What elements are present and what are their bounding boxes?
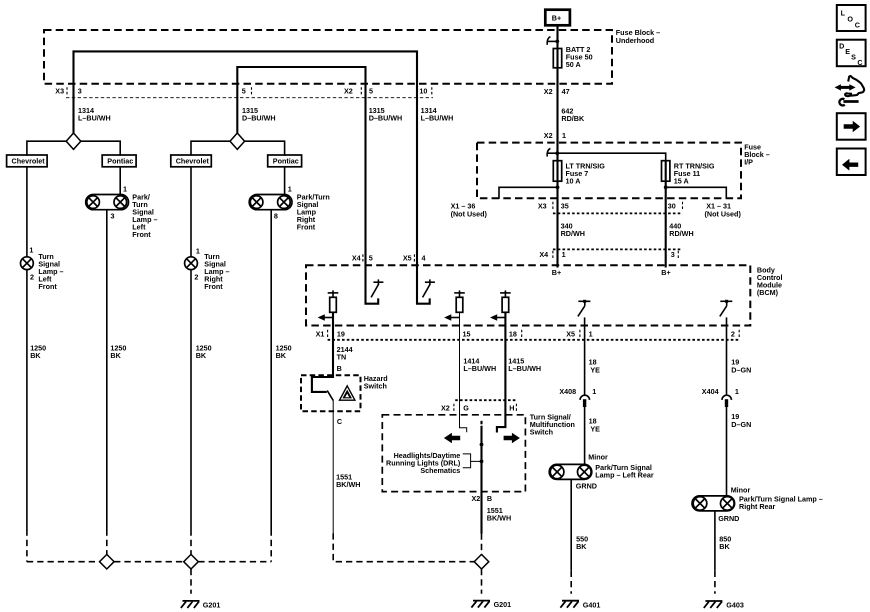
svg-text:X2: X2 — [472, 494, 481, 503]
svg-text:Lamp – Left Rear: Lamp – Left Rear — [595, 471, 654, 480]
label: Body Control Module (BCM) — [757, 265, 783, 297]
svg-text:2: 2 — [30, 272, 34, 281]
park/turn signal lamp - left rear (dual bulb) — [549, 464, 592, 479]
park/turn signal lamp - right rear (dual bulb) — [692, 496, 735, 511]
dashed drop to G201 — [481, 569, 483, 594]
svg-text:GRND: GRND — [576, 481, 597, 490]
in-line connector X408 pin 1 — [559, 387, 596, 407]
svg-text:Pontiac: Pontiac — [107, 157, 133, 166]
svg-text:G201: G201 — [203, 601, 221, 610]
BCM driver output U1 (hazard feed X1-19) — [318, 290, 339, 320]
connector X4 pin 5 — [352, 254, 373, 264]
wire 2144 TN: driver to hazard switch B — [312, 312, 333, 392]
label: wire 850 BK — [719, 535, 731, 552]
left turn arrow (switch position) — [444, 433, 460, 444]
wire branch to Chevrolet (right front) — [191, 141, 230, 156]
ground G201 (front lamps) — [181, 601, 220, 610]
label: Park/Turn Signal Lamp - Left Front — [132, 192, 157, 239]
svg-text:X1: X1 — [316, 329, 325, 338]
wire: Pontiac to park/turn lamp left front — [119, 167, 121, 195]
wire 19 D-GN: X5-2 to X404 — [726, 317, 728, 394]
label: wire 1551 BK/WH (multifunction) — [487, 506, 511, 523]
connector X1 pin 19 — [316, 329, 345, 339]
splice diamond S2 (1315) — [230, 133, 245, 149]
wire 340 RD/WH: LT fuse to BCM X4-1 — [556, 161, 558, 268]
dashed drop to G201 (front) — [190, 569, 192, 594]
splice diamond (1551 ground) — [474, 554, 489, 569]
svg-text:C: C — [337, 417, 342, 426]
svg-text:D–BU/WH: D–BU/WH — [242, 113, 276, 122]
wire 1250 BK (chevrolet right front) — [190, 270, 192, 530]
svg-text:Chevrolet: Chevrolet — [12, 157, 46, 166]
label: Turn Signal/Multifunction Switch — [530, 413, 575, 437]
svg-text:L: L — [841, 8, 846, 17]
label: wire 642 RD/BK — [561, 106, 585, 123]
label: wire 18 YE — [589, 357, 601, 374]
dashed ground run (chevrolet left front) — [26, 530, 28, 562]
label: wire 1250 BK — [276, 343, 292, 360]
svg-text:RD/BK: RD/BK — [561, 114, 585, 123]
dashed ground run (chevrolet right front) — [190, 530, 192, 555]
label: wire 1250 BK — [30, 343, 46, 360]
svg-text:Minor: Minor — [731, 485, 751, 494]
svg-text:Minor: Minor — [588, 452, 608, 461]
wire 1551 BK/WH: hazard C to ground splice — [332, 401, 334, 534]
svg-text:1: 1 — [196, 246, 200, 255]
svg-text:C: C — [857, 58, 862, 67]
svg-text:X4: X4 — [352, 254, 361, 263]
nav icon: forward arrow box — [837, 113, 866, 140]
svg-text:G201: G201 — [494, 600, 512, 609]
svg-text:B: B — [487, 494, 492, 503]
svg-text:BK: BK — [196, 351, 207, 360]
svg-text:10 A: 10 A — [566, 176, 581, 185]
wire 18 YE: X5-1 to X408 — [584, 317, 586, 394]
svg-text:1: 1 — [735, 387, 739, 396]
BCM driver output U3 (right turn 18) — [490, 290, 511, 320]
label: wire 2144 TN — [337, 345, 353, 362]
label: RT TRN/SIG Fuse 11 15 A — [674, 161, 715, 185]
label: Fuse Block - I/P — [744, 142, 770, 166]
svg-text:YE: YE — [590, 424, 600, 433]
wire: multifunction switch common to X2-B — [480, 426, 482, 534]
svg-text:1: 1 — [589, 329, 593, 338]
svg-text:1: 1 — [592, 387, 596, 396]
svg-text:X3: X3 — [55, 87, 64, 96]
svg-text:(Not Used): (Not Used) — [451, 209, 488, 218]
dashed ground run (pontiac right front) — [270, 530, 272, 562]
svg-text:35: 35 — [561, 202, 569, 211]
wire branch to Pontiac (left front) — [81, 141, 120, 156]
svg-text:1: 1 — [562, 131, 566, 140]
switch blade (BCM left flasher input 1) — [371, 279, 383, 297]
svg-text:5: 5 — [242, 87, 246, 96]
switch blade (BCM left flasher input 2) — [423, 279, 435, 297]
svg-text:Front: Front — [204, 282, 223, 291]
svg-text:D: D — [839, 42, 844, 51]
label: wire 1314 L-BU/WH (X3-3) — [78, 106, 111, 123]
svg-text:BK/WH: BK/WH — [336, 480, 360, 489]
svg-text:BK: BK — [110, 351, 121, 360]
B+ power terminal — [545, 10, 570, 26]
wire 1414 L-BU/WH: driver 15 to X2-G — [460, 312, 467, 432]
junction (DRL tap) — [480, 460, 484, 464]
dashed ground run to splice (1551) — [481, 534, 483, 555]
wire 1250 BK (chevrolet left front) — [26, 270, 28, 530]
svg-text:Chevrolet: Chevrolet — [176, 157, 210, 166]
svg-text:B+: B+ — [552, 268, 561, 277]
splice diamond (front ground bus, pontiac L) — [100, 554, 115, 569]
svg-text:1: 1 — [29, 245, 33, 254]
svg-text:D–GN: D–GN — [731, 365, 751, 374]
svg-text:RD/WH: RD/WH — [561, 229, 585, 238]
svg-text:3: 3 — [671, 250, 675, 259]
body control module (BCM) dashed box — [306, 265, 750, 325]
pin X1-36 (Not Used) — [451, 202, 488, 219]
ground G201 (center) — [471, 600, 511, 609]
svg-text:(BCM): (BCM) — [757, 288, 779, 297]
wire: Chevrolet to turn signal lamp left front — [26, 167, 28, 257]
label: wire 1315 D-BU/WH (X2-5) — [369, 106, 403, 123]
svg-text:X2: X2 — [441, 403, 450, 412]
svg-text:Front: Front — [297, 222, 316, 231]
splice diamond (front ground bus, chevrolet R) — [184, 554, 199, 569]
junction on LT fuse output — [556, 185, 560, 189]
label: Turn Signal Lamp - Left Front — [38, 252, 63, 291]
Pontiac box (left front) — [102, 155, 136, 167]
junction on RT fuse output — [664, 185, 668, 189]
label: wire 550 BK — [576, 535, 588, 552]
svg-text:G401: G401 — [583, 600, 601, 609]
in-line connector X404 pin 1 — [702, 387, 739, 407]
label: Park/Turn Signal Lamp Right Front — [297, 192, 330, 231]
hazard warning triangle — [340, 386, 355, 400]
svg-text:G: G — [463, 403, 469, 412]
svg-text:8: 8 — [274, 212, 278, 221]
svg-text:B: B — [337, 364, 342, 373]
turn signal / multifunction switch dashed box — [382, 415, 525, 492]
splice diamond S1 (1314) — [66, 133, 81, 149]
svg-text:2: 2 — [731, 329, 735, 338]
label: wire 18 YE (below X408) — [589, 417, 601, 434]
svg-text:Schematics: Schematics — [420, 466, 460, 475]
wire: branch to RT TRN/SIG fuse — [558, 153, 666, 161]
svg-text:X404: X404 — [702, 387, 719, 396]
svg-text:D–GN: D–GN — [731, 420, 751, 429]
wire stub to X1-31 — [666, 187, 727, 199]
svg-text:X408: X408 — [559, 387, 576, 396]
label: Fuse Block - Underhood — [616, 28, 660, 45]
battery feed tap hook — [547, 37, 559, 45]
wire 1315 D-BU/WH: X3-5 bus to BCM X4-5 (hook) — [237, 67, 378, 304]
svg-text:X2: X2 — [344, 87, 353, 96]
ground G403 — [704, 601, 744, 610]
nav icon: LOC box — [837, 5, 866, 31]
dashed ground run from hazard C to splice — [333, 533, 474, 561]
svg-text:B+: B+ — [661, 268, 670, 277]
ground G401 — [560, 600, 600, 609]
label: wire 440 RD/WH — [669, 222, 693, 239]
wire: B+ feed to BATT 2 fuse — [556, 25, 558, 68]
label: Park/Turn Signal Lamp - Left Rear — [595, 463, 654, 480]
switch S3 (BCM rear left output X5-1) — [578, 300, 591, 317]
wire 850 BK: right rear lamp ground — [714, 511, 716, 571]
connector X2 pins G/H (multifunction switch) — [441, 400, 517, 412]
pin 18 — [509, 329, 522, 339]
svg-text:E: E — [845, 47, 850, 56]
feed tap hook at LT fuse — [547, 148, 559, 156]
connector X3 pins 35/30 — [538, 202, 683, 214]
connector row X3 pins 3,5 / X2 pins 5,10 — [55, 87, 433, 98]
label: Turn Signal Lamp - Right Front — [204, 252, 229, 291]
label: wire 1314 L-BU/WH (X2-10) — [421, 106, 454, 123]
svg-text:BK: BK — [576, 542, 587, 551]
dashed drop to G403 — [714, 571, 716, 594]
svg-text:GRND: GRND — [718, 514, 739, 523]
svg-text:BK/WH: BK/WH — [487, 513, 511, 522]
svg-text:Right Rear: Right Rear — [739, 502, 776, 511]
junction (arrow row) — [480, 443, 484, 447]
label: wire 1414 L-BU/WH — [463, 356, 496, 373]
svg-text:5: 5 — [369, 254, 373, 263]
svg-text:L–BU/WH: L–BU/WH — [508, 364, 541, 373]
wire branch to Pontiac (right front) — [245, 141, 285, 156]
wire: Pontiac to park/turn lamp right front — [284, 167, 286, 195]
fuse block I/P dashed box — [477, 143, 741, 199]
svg-text:15: 15 — [463, 329, 471, 338]
label: wire 1315 D-BU/WH (X3-5) — [242, 106, 276, 123]
svg-text:4: 4 — [422, 254, 426, 263]
svg-text:B+: B+ — [552, 14, 561, 23]
svg-text:X2: X2 — [544, 87, 553, 96]
svg-text:Pontiac: Pontiac — [273, 157, 299, 166]
Chevrolet box (left front) — [7, 155, 48, 167]
svg-text:X3: X3 — [538, 202, 547, 211]
wire stub to X1-36 — [499, 187, 558, 199]
dashed drop to G401 — [570, 571, 572, 594]
svg-text:D–BU/WH: D–BU/WH — [369, 113, 403, 122]
svg-text:Front: Front — [38, 282, 57, 291]
svg-text:H: H — [509, 403, 514, 412]
connector X2 pin 1 — [544, 131, 566, 140]
wire branch to Chevrolet (left front) — [27, 141, 66, 156]
svg-text:BK: BK — [719, 542, 730, 551]
svg-text:50 A: 50 A — [566, 60, 581, 69]
svg-text:Switch: Switch — [530, 428, 553, 437]
svg-text:2: 2 — [194, 272, 198, 281]
svg-text:10: 10 — [419, 87, 427, 96]
Chevrolet box (right front) — [171, 155, 212, 167]
fuse RT TRN/SIG Fuse 11 — [662, 161, 670, 182]
fuse BATT 2 Fuse 50 — [553, 49, 561, 68]
dashed ground bus (front lamps) — [27, 561, 271, 563]
DRL reference bracket — [463, 454, 482, 468]
nav icon: DESC box — [837, 40, 866, 67]
connector X2 pin 47 — [544, 87, 570, 96]
pin X1-31 (Not Used) — [705, 202, 742, 219]
label: wire 1250 BK — [110, 343, 126, 360]
svg-text:TN: TN — [337, 353, 347, 362]
label: Park/Turn Signal Lamp - Right Rear — [739, 495, 823, 512]
svg-text:1: 1 — [123, 185, 127, 194]
turn signal lamp - right front (bulb) — [185, 257, 198, 270]
svg-text:L–BU/WH: L–BU/WH — [421, 113, 454, 122]
svg-text:S: S — [851, 52, 856, 61]
label: wire 1250 BK — [196, 343, 212, 360]
svg-text:X5: X5 — [566, 329, 575, 338]
nav icon: repair mitt with arrows and wrench — [835, 76, 865, 105]
wire 1314 L-BU/WH: X3-3 bus to BCM X5-4 (hook) — [74, 51, 430, 303]
svg-text:Front: Front — [132, 230, 151, 239]
svg-text:(Not Used): (Not Used) — [705, 209, 742, 218]
wire 1250 BK (pontiac left front) — [106, 210, 108, 530]
svg-text:15 A: 15 A — [674, 176, 689, 185]
park/turn signal lamp - left front (dual bulb) — [86, 195, 129, 210]
BCM driver output U2 (left turn 15) — [444, 290, 465, 320]
svg-text:X5: X5 — [403, 254, 412, 263]
wire 550 BK: left rear lamp ground — [570, 479, 572, 570]
svg-text:Switch: Switch — [364, 381, 387, 390]
Pontiac box (right front) — [268, 155, 302, 167]
wire 1415 L-BU/WH: driver 18 to X2-H — [497, 312, 506, 432]
label: wire 19 D-GN (below X404) — [731, 412, 751, 429]
svg-text:18: 18 — [509, 329, 517, 338]
right turn arrow (switch position) — [504, 433, 520, 444]
svg-text:Underhood: Underhood — [616, 36, 654, 45]
label: wire 340 RD/WH — [561, 222, 585, 239]
connector X2 pin B — [472, 494, 493, 503]
svg-text:X4: X4 — [539, 250, 548, 259]
wire 19 D-GN: X404 to right rear lamp — [726, 407, 728, 496]
label: wire 1551 BK/WH (hazard) — [336, 473, 360, 490]
svg-text:5: 5 — [369, 87, 373, 96]
label: wire 19 D-GN — [731, 357, 751, 374]
park/turn signal lamp - right front (dual bulb) — [249, 195, 292, 210]
svg-text:BK: BK — [276, 351, 287, 360]
svg-text:L–BU/WH: L–BU/WH — [463, 364, 496, 373]
svg-text:O: O — [847, 14, 853, 23]
BCM bottom connector dotted line — [328, 339, 740, 341]
svg-text:1: 1 — [288, 185, 292, 194]
wire 1250 BK (pontiac right front) — [270, 210, 272, 530]
turn signal lamp - left front (bulb) — [21, 257, 34, 270]
svg-text:RD/WH: RD/WH — [669, 229, 693, 238]
label: LT TRN/SIG Fuse 7 10 A — [566, 161, 606, 185]
connector X5 pins 1/2 — [566, 329, 739, 339]
wire 440 RD/WH: RT fuse to BCM X4-3 — [665, 161, 667, 268]
svg-text:C: C — [855, 20, 860, 29]
label: Headlights/Daytime Running Lights (DRL) Schematics — [386, 451, 461, 475]
wire 18 YE: X408 to left rear lamp — [584, 407, 586, 464]
wire 642 RD/BK: fuse to X2-1 — [556, 68, 558, 161]
hazard switch blade — [327, 391, 333, 401]
connector X5 pin 4 — [403, 254, 426, 264]
switch S4 (BCM rear right output X5-2) — [720, 300, 733, 317]
fuse block underhood dashed box — [44, 30, 612, 84]
svg-text:X2: X2 — [544, 131, 553, 140]
svg-text:I/P: I/P — [744, 157, 753, 166]
svg-text:G403: G403 — [726, 601, 744, 610]
svg-text:BK: BK — [30, 351, 41, 360]
svg-text:YE: YE — [590, 365, 600, 374]
svg-text:1: 1 — [562, 250, 566, 259]
wire: Chevrolet to turn signal lamp right front — [190, 167, 192, 257]
nav icon: back arrow box — [837, 149, 866, 176]
label: wire 1415 L-BU/WH — [508, 356, 541, 373]
dashed ground run (pontiac left front) — [106, 530, 108, 555]
svg-text:3: 3 — [111, 212, 115, 221]
switch common stub (dashed) — [480, 421, 482, 425]
svg-text:30: 30 — [668, 202, 676, 211]
connector X4 pins 1/3 — [539, 249, 682, 260]
fuse LT TRN/SIG Fuse 7 — [553, 161, 561, 182]
svg-text:3: 3 — [78, 87, 82, 96]
hazard switch dashed box — [301, 375, 361, 411]
label: Hazard Switch — [364, 374, 388, 391]
label: BATT 2 Fuse 50 50 A — [566, 45, 593, 69]
svg-text:19: 19 — [337, 329, 345, 338]
svg-text:47: 47 — [562, 87, 570, 96]
svg-text:L–BU/WH: L–BU/WH — [78, 113, 111, 122]
